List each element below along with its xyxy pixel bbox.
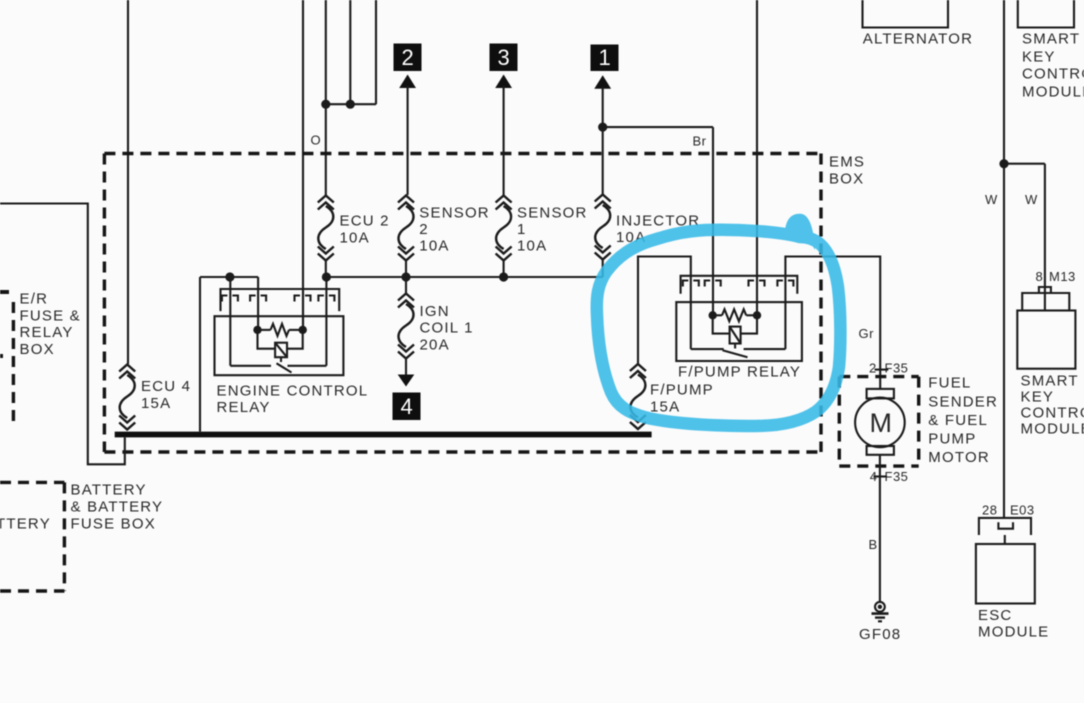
svg-text:Br: Br: [693, 134, 707, 149]
svg-text:20A: 20A: [420, 337, 450, 354]
svg-text:Gr: Gr: [859, 326, 875, 341]
svg-text:RELAY: RELAY: [217, 399, 271, 416]
svg-text:SMART: SMART: [1022, 31, 1080, 48]
svg-text:GF08: GF08: [859, 626, 901, 643]
svg-text:B: B: [869, 537, 878, 552]
svg-text:PUMP: PUMP: [928, 431, 976, 448]
svg-text:BATTERY: BATTERY: [71, 482, 147, 499]
svg-text:W: W: [985, 192, 998, 207]
svg-text:F/PUMP: F/PUMP: [650, 382, 714, 399]
svg-text:ALTERNATOR: ALTERNATOR: [863, 31, 973, 48]
svg-text:ECU 2: ECU 2: [340, 213, 390, 230]
svg-text:E03: E03: [1010, 503, 1035, 518]
svg-text:SENSOR: SENSOR: [419, 205, 490, 222]
svg-text:4: 4: [401, 394, 413, 419]
svg-text:FUSE BOX: FUSE BOX: [71, 516, 156, 533]
svg-text:1: 1: [517, 221, 527, 238]
svg-text:SMART: SMART: [1021, 373, 1079, 390]
svg-text:MODULE: MODULE: [978, 624, 1049, 641]
svg-text:F/PUMP RELAY: F/PUMP RELAY: [678, 364, 801, 381]
svg-text:IGN: IGN: [420, 303, 450, 320]
svg-text:28: 28: [982, 503, 997, 518]
svg-text:BOX: BOX: [829, 171, 864, 188]
svg-text:ECU 4: ECU 4: [141, 378, 191, 395]
svg-text:BOX: BOX: [20, 341, 55, 358]
svg-text:15A: 15A: [650, 399, 680, 416]
svg-text:10A: 10A: [419, 238, 449, 255]
svg-text:F35: F35: [885, 469, 909, 484]
svg-text:ESC: ESC: [978, 607, 1012, 624]
svg-text:8: 8: [1036, 269, 1044, 284]
svg-text:2: 2: [419, 221, 429, 238]
svg-text:SENSOR: SENSOR: [517, 205, 588, 222]
svg-text:E/R: E/R: [20, 291, 49, 308]
svg-text:CONTROL: CONTROL: [1022, 66, 1084, 83]
svg-text:TTERY: TTERY: [0, 516, 51, 533]
svg-text:FUEL: FUEL: [928, 375, 971, 392]
svg-text:MOTOR: MOTOR: [928, 449, 990, 466]
svg-text:O: O: [311, 133, 322, 148]
svg-text:KEY: KEY: [1022, 49, 1056, 66]
svg-text:MODULE: MODULE: [1021, 421, 1084, 438]
svg-text:M: M: [870, 408, 893, 438]
svg-text:M13: M13: [1049, 269, 1076, 284]
svg-text:10A: 10A: [517, 238, 547, 255]
svg-text:& FUEL: & FUEL: [928, 412, 988, 429]
svg-text:CONTROL: CONTROL: [1021, 405, 1084, 422]
svg-text:SENDER: SENDER: [928, 394, 998, 411]
svg-text:& BATTERY: & BATTERY: [71, 499, 164, 516]
svg-text:F35: F35: [885, 361, 909, 376]
svg-text:KEY: KEY: [1021, 389, 1055, 406]
svg-text:EMS: EMS: [829, 154, 865, 171]
svg-text:COIL 1: COIL 1: [420, 320, 474, 337]
svg-text:2: 2: [402, 45, 414, 70]
svg-text:FUSE &: FUSE &: [20, 307, 81, 324]
svg-text:15A: 15A: [141, 395, 171, 412]
svg-text:W: W: [1025, 192, 1038, 207]
svg-text:10A: 10A: [340, 230, 370, 247]
svg-text:MODULE: MODULE: [1022, 84, 1084, 101]
svg-text:RELAY: RELAY: [20, 324, 74, 341]
svg-text:1: 1: [599, 45, 611, 70]
svg-text:ENGINE CONTROL: ENGINE CONTROL: [217, 383, 369, 400]
svg-text:2: 2: [869, 361, 877, 376]
svg-text:3: 3: [498, 45, 510, 70]
